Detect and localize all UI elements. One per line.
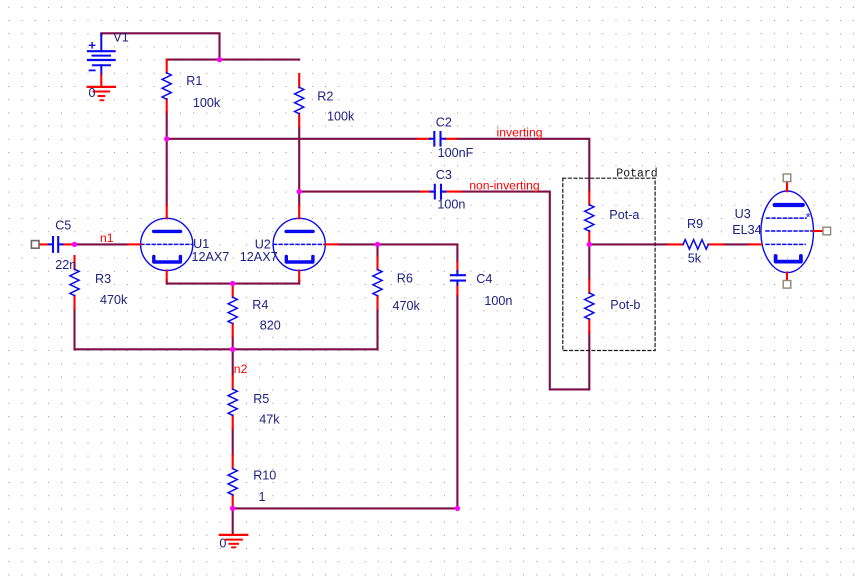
resistor Pot-b [588,280,590,333]
wire n1 to U1 grid [75,243,129,245]
svg-text:47k: 47k [259,412,280,426]
svg-text:5k: 5k [688,251,702,265]
port U3 top [783,174,791,182]
wire C3 left segment [299,191,421,193]
wire R9 to U3 [723,243,749,245]
svg-text:R3: R3 [95,272,111,286]
svg-text:C2: C2 [436,116,452,130]
svg-text:12AX7: 12AX7 [192,250,230,264]
wire top rail R1-R2 [167,59,300,61]
svg-text:R5: R5 [253,392,269,406]
wire bottom rail [233,507,458,509]
resistor R5 [232,376,234,429]
dashed box Potard [563,178,655,350]
resistor R4 [232,284,234,337]
wire R2 bottom to U2 anode [298,127,300,205]
wire C4 bottom leg [456,295,458,508]
svg-text:470k: 470k [393,299,421,313]
node n2 [230,347,235,352]
wire Pot-a to Pot-b [588,244,590,279]
svg-text:1: 1 [259,490,266,504]
capacitor C2 [417,132,456,146]
svg-text:0: 0 [219,536,226,550]
node R2/C3 [297,189,302,194]
wire U2 grid to C4 [338,244,458,262]
wire R1 bottom to U1 anode [166,112,168,205]
svg-text:C5: C5 [55,218,71,232]
resistor R9 [668,243,723,245]
node R1/C2 [164,136,169,141]
svg-text:R9: R9 [687,217,703,231]
wire n2 to R5 [232,349,234,376]
capacitor C3 [421,185,460,199]
wire inverting C2 to Pot-a [456,139,589,192]
resistor Pot-a [588,192,590,245]
svg-text:inverting: inverting [497,125,543,139]
svg-text:*: * [806,211,811,225]
svg-text:820: 820 [260,318,281,332]
wire R3 bottom leg [73,309,75,350]
capacitor C4 [451,262,465,295]
battery V1 [88,34,115,74]
svg-text:C4: C4 [476,272,492,286]
port IN [31,241,39,249]
resistor R10 [232,455,234,508]
svg-text:100k: 100k [327,110,355,124]
svg-text:n1: n1 [100,231,114,245]
junction node dots [72,57,592,511]
wire R6 bottom leg [376,309,378,350]
wire ground stem [232,508,234,535]
svg-text:12AX7: 12AX7 [240,250,278,264]
wire wiper to R9 [589,243,668,245]
op-amp U3 (pentode EL34) [749,182,823,281]
port U3 right [823,227,831,235]
ground 0 (V1) [88,75,115,101]
node wiper [587,242,592,247]
wire R6 top stub [376,244,378,256]
svg-text:100k: 100k [193,96,221,110]
svg-text:R10: R10 [253,468,276,482]
resistor R2 [298,74,300,127]
svg-text:Pot-b: Pot-b [610,298,640,312]
resistor R3 [73,256,75,309]
wire R5 to R10 [232,429,234,456]
node bottom right [455,506,460,511]
svg-text:470k: 470k [100,293,128,307]
svg-text:R1: R1 [186,74,202,88]
svg-text:EL34: EL34 [732,223,761,237]
svg-text:100n: 100n [437,198,465,212]
resistor R6 [376,256,378,308]
svg-text:C3: C3 [436,168,452,182]
svg-text:non-inverting: non-inverting [469,178,539,192]
node cathode/R4 [230,281,235,286]
svg-text:Pot-a: Pot-a [609,208,639,222]
port U3 bottom [783,281,791,289]
svg-text:Potard: Potard [616,168,657,181]
wire non-inverting C3 to Pot-b [460,192,589,390]
op-amp U1 (triode 12AX7) [128,205,193,280]
wire C2 left segment [167,138,418,140]
svg-text:100n: 100n [484,294,512,308]
svg-text:n2: n2 [234,362,248,376]
svg-text:22n: 22n [55,258,76,272]
svg-text:V1: V1 [113,30,128,44]
node bottom left [230,506,235,511]
svg-text:0: 0 [89,86,96,100]
svg-text:U3: U3 [735,207,751,221]
svg-text:100nF: 100nF [438,146,474,160]
node R6 tap [375,242,380,247]
node n1 [72,242,77,247]
svg-text:R2: R2 [317,90,333,104]
svg-text:R6: R6 [397,272,413,286]
wire R4 bottom stub [232,337,234,350]
op-amp U2 (triode 12AX7) [273,205,338,280]
node V1/rail [217,57,222,62]
wire n2 rail [75,348,378,350]
svg-text:R4: R4 [252,298,268,312]
capacitor C5 [35,237,74,252]
wire cathode rail U1-U2 [167,281,300,284]
resistor R1 [166,60,168,113]
ground 0 (bottom) [220,535,248,547]
wire V1 top to rail [101,33,219,59]
